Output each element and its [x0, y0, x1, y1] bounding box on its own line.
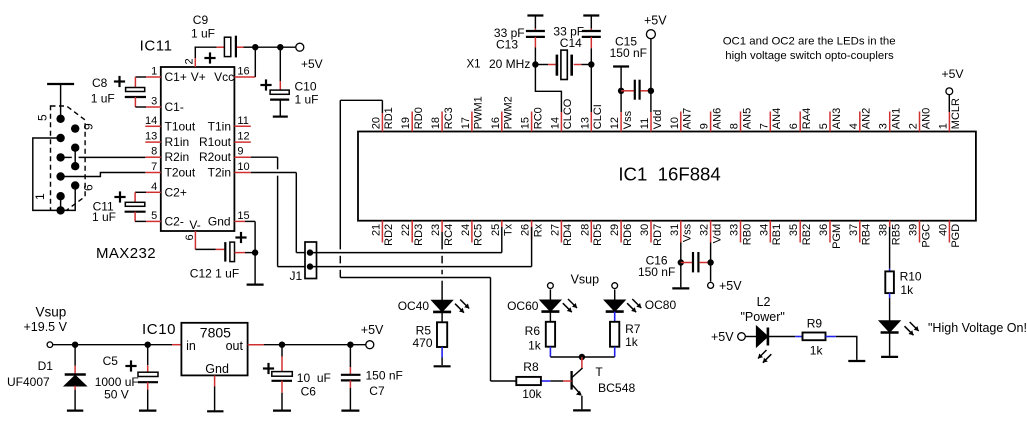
- svg-text:3: 3: [151, 96, 157, 108]
- svg-text:L2: L2: [757, 295, 771, 309]
- svg-text:1k: 1k: [810, 344, 824, 358]
- wire R5 to ground: [441, 347, 443, 358]
- wire Gnd pin15 down: [245, 220, 255, 222]
- wire crystal left to CLCO pin14: [535, 65, 561, 113]
- capacitor C9: [224, 37, 230, 56]
- svg-text:AN6: AN6: [711, 108, 723, 129]
- wire J1 to Rx pin26: [310, 266, 532, 268]
- IC1 pin 33 RB0: [740, 221, 742, 243]
- svg-text:9: 9: [237, 146, 243, 158]
- svg-text:RD3: RD3: [413, 224, 425, 246]
- svg-text:out: out: [226, 339, 244, 353]
- svg-text:30: 30: [639, 224, 651, 236]
- wire R2out pin9 to J1: [251, 156, 278, 158]
- svg-text:1k: 1k: [625, 335, 639, 349]
- svg-text:22: 22: [400, 224, 412, 236]
- svg-text:1 uF: 1 uF: [91, 92, 115, 106]
- wire junction to +5V terminal: [255, 46, 296, 48]
- wire 7805 out rail: [248, 344, 264, 346]
- DB9 pin dots left column: [56, 115, 64, 123]
- svg-text:T1out: T1out: [165, 119, 196, 133]
- svg-text:16: 16: [237, 66, 249, 78]
- svg-text:10 uF: 10 uF: [297, 371, 331, 385]
- MAX232 pin 6 V- stub: [194, 231, 196, 249]
- IC1 pin 34 RB1: [769, 221, 771, 243]
- svg-text:Gnd: Gnd: [208, 214, 231, 228]
- wire C8 to pin3: [134, 97, 136, 107]
- svg-text:RD5: RD5: [592, 224, 604, 246]
- svg-text:IC1 16F884: IC1 16F884: [618, 164, 720, 185]
- svg-text:R1out: R1out: [199, 135, 232, 149]
- ground MAX232: [247, 284, 264, 286]
- IC1 pin 5 AN3: [829, 112, 831, 132]
- wire Vdd pin32 down: [710, 243, 712, 282]
- svg-text:IC11: IC11: [140, 37, 173, 54]
- node D1 junction: [72, 342, 78, 348]
- wire DB9 link pins 8-7: [74, 148, 76, 167]
- wire C11 to pin5: [134, 212, 136, 222]
- svg-text:CLCO: CLCO: [562, 98, 574, 129]
- IC1 pin 6 RA4: [799, 112, 801, 132]
- svg-text:28: 28: [579, 224, 591, 236]
- capacitor C13: [527, 14, 543, 16]
- svg-text:AN1: AN1: [891, 108, 903, 129]
- IC1 pin 17 PWM1: [471, 112, 473, 132]
- svg-text:PGD: PGD: [950, 224, 962, 248]
- IC IC10 7805 body: [181, 323, 247, 376]
- svg-text:26: 26: [520, 224, 532, 236]
- IC IC1 16F884 body: [358, 132, 976, 221]
- ground emitter: [573, 409, 591, 411]
- svg-text:RD0: RD0: [413, 107, 425, 129]
- svg-text:150 nF: 150 nF: [638, 265, 675, 279]
- svg-text:14: 14: [145, 115, 157, 127]
- svg-text:150 nF: 150 nF: [610, 46, 647, 60]
- svg-text:1: 1: [33, 193, 47, 200]
- svg-text:OC60: OC60: [507, 299, 539, 313]
- svg-text:RB5: RB5: [891, 224, 903, 245]
- DB9 pin dots right column: [71, 124, 79, 132]
- IC1 pin 35 RB2: [799, 221, 801, 243]
- crystal X1: [535, 64, 548, 66]
- svg-text:RD2: RD2: [383, 224, 395, 246]
- terminal +5V (MAX232): [296, 43, 304, 51]
- wire R8 to base: [550, 380, 563, 382]
- svg-text:AN2: AN2: [861, 108, 873, 129]
- svg-text:D1: D1: [38, 359, 54, 373]
- svg-text:9: 9: [82, 123, 96, 130]
- svg-text:C5: C5: [103, 354, 119, 368]
- svg-text:Rx: Rx: [532, 223, 544, 237]
- svg-text:R8: R8: [523, 360, 539, 374]
- wire +5V to MCLR pin1: [948, 95, 950, 112]
- svg-text:RD1: RD1: [383, 107, 395, 129]
- LED L2 arrows: [758, 350, 767, 359]
- svg-text:C7: C7: [369, 384, 385, 398]
- svg-text:RB1: RB1: [771, 224, 783, 245]
- svg-text:RD4: RD4: [562, 224, 574, 246]
- capacitor C10: [279, 47, 281, 81]
- svg-text:Vsup: Vsup: [571, 273, 600, 287]
- wire pin1 to C8: [135, 76, 146, 78]
- MAX232 pin 7 stub: [145, 172, 161, 174]
- svg-text:C1-: C1-: [165, 100, 184, 114]
- wire junction down to Vcc pin16: [254, 47, 256, 77]
- wire Vsup rail: [53, 344, 172, 346]
- svg-text:36: 36: [818, 224, 830, 236]
- MAX232 pin 13 stub: [145, 141, 161, 143]
- svg-text:MCLR: MCLR: [950, 98, 962, 129]
- transistor T BC548: [581, 357, 583, 368]
- svg-text:RC5: RC5: [473, 224, 485, 246]
- svg-text:CLCI: CLCI: [592, 104, 604, 129]
- IC1 pin 14 CLCO: [560, 112, 562, 132]
- IC1 pin 10 AN7: [680, 112, 682, 132]
- MAX232 pin 10 stub: [234, 172, 250, 174]
- svg-text:3: 3: [878, 123, 890, 129]
- svg-text:34: 34: [758, 224, 770, 236]
- svg-text:AN7: AN7: [682, 108, 694, 129]
- ground C10: [273, 115, 288, 117]
- ground DB9 pin5: [60, 84, 62, 119]
- svg-text:RC0: RC0: [532, 107, 544, 129]
- svg-text:RA4: RA4: [801, 108, 813, 129]
- wire RC4 pin23 to OC40: [441, 232, 443, 249]
- resistor R8: [516, 377, 541, 385]
- svg-text:Vss: Vss: [622, 110, 634, 129]
- svg-text:J1: J1: [290, 269, 303, 283]
- svg-text:8: 8: [151, 146, 157, 158]
- IC1 pin 7 AN4: [769, 112, 771, 132]
- ground 7805: [207, 410, 223, 412]
- svg-text:25: 25: [490, 224, 502, 236]
- svg-text:11: 11: [639, 118, 651, 129]
- node C5 junction: [145, 342, 151, 348]
- resistor R7: [610, 322, 619, 347]
- svg-text:RD7: RD7: [652, 224, 664, 246]
- svg-text:12: 12: [609, 117, 621, 129]
- wire DB9 pins 4-6-1 tie: [33, 138, 75, 210]
- svg-text:IC10: IC10: [142, 321, 176, 338]
- MAX232 pin 12 stub: [234, 141, 250, 143]
- svg-text:23: 23: [430, 224, 442, 236]
- LED L2: [745, 336, 756, 338]
- MAX232 pin 15 stub: [234, 220, 245, 222]
- terminal +5V (L2): [738, 333, 746, 341]
- node C6 junction: [279, 342, 285, 348]
- svg-text:1k: 1k: [528, 339, 542, 353]
- svg-text:1k: 1k: [900, 283, 914, 297]
- node DB9 pin1 tie junction: [60, 196, 62, 210]
- IC1 pin 1 MCLR: [948, 112, 950, 132]
- MAX232 pin 4 stub: [146, 191, 161, 193]
- svg-text:38: 38: [878, 224, 890, 236]
- wire base red: [563, 380, 572, 382]
- svg-text:T: T: [595, 365, 603, 379]
- svg-text:32: 32: [699, 224, 711, 236]
- svg-text:C1+: C1+: [165, 70, 187, 84]
- IC1 pin 20 RD1: [381, 113, 383, 132]
- MAX232 pin 5 stub: [146, 220, 161, 222]
- svg-text:13: 13: [145, 131, 157, 143]
- capacitor C5: [147, 345, 149, 366]
- terminal +5V (Vdd top): [646, 30, 655, 39]
- IC1 pin 32 Vdd: [710, 221, 712, 243]
- LED OC80: [614, 289, 616, 300]
- svg-text:RC4: RC4: [443, 224, 455, 246]
- svg-text:21: 21: [370, 224, 382, 236]
- svg-text:T1in: T1in: [208, 119, 231, 133]
- capacitor C12: [224, 242, 226, 262]
- IC1 pin 36 PGM: [829, 221, 831, 243]
- svg-text:1 uF: 1 uF: [295, 93, 319, 107]
- MAX232 pin 2 V+ stub: [194, 58, 196, 67]
- svg-text:13: 13: [579, 117, 591, 129]
- ground Vss pin12: [613, 65, 629, 67]
- LED High Voltage On: [880, 321, 900, 332]
- MAX232 pin 16 stub: [234, 76, 255, 78]
- wire R7 to collector node: [614, 347, 616, 357]
- J1 pin dots: [307, 249, 313, 255]
- svg-text:6: 6: [82, 184, 96, 191]
- svg-text:6: 6: [184, 234, 196, 240]
- IC1 pin 18 RC3: [441, 112, 443, 132]
- svg-text:10: 10: [237, 161, 249, 173]
- IC1 pin 31 Vss: [680, 221, 682, 243]
- wire DB9 pin2 TxD to T2out: [61, 173, 146, 177]
- LED OC40: [432, 301, 452, 312]
- IC1 pin 21 RD2: [381, 221, 383, 243]
- node C9-Vcc junction: [252, 44, 258, 50]
- svg-text:33: 33: [729, 224, 741, 236]
- svg-text:high voltage switch opto-coupl: high voltage switch opto-couplers: [725, 50, 894, 62]
- LED OC40 arrows: [455, 304, 464, 313]
- svg-text:4: 4: [848, 123, 860, 129]
- svg-text:C2-: C2-: [165, 214, 184, 228]
- svg-text:AN4: AN4: [771, 108, 783, 129]
- IC1 pin 22 RD3: [411, 221, 413, 243]
- svg-text:37: 37: [848, 224, 860, 236]
- LED HV arrows: [905, 326, 914, 335]
- capacitor C14: [583, 14, 599, 16]
- svg-text:15: 15: [237, 210, 249, 222]
- IC1 pin 2 AN0: [919, 112, 921, 132]
- IC1 pin 37 RB4: [859, 221, 861, 243]
- svg-text:Vdd: Vdd: [652, 110, 664, 130]
- capacitor C15: [621, 90, 634, 92]
- svg-text:1 uF: 1 uF: [92, 210, 116, 224]
- svg-text:PWM1: PWM1: [473, 96, 485, 129]
- svg-text:C9: C9: [193, 13, 209, 27]
- svg-text:Vdd: Vdd: [711, 224, 723, 244]
- node C10 junction: [277, 44, 283, 50]
- resistor R9: [803, 333, 826, 341]
- svg-text:R6: R6: [525, 324, 541, 338]
- svg-text:+19.5 V: +19.5 V: [24, 320, 68, 334]
- IC1 pin 13 CLCI: [590, 112, 592, 132]
- IC1 pin 24 RC5: [471, 221, 473, 243]
- svg-text:Tx: Tx: [503, 223, 515, 236]
- IC1 pin 11 Vdd: [650, 112, 652, 132]
- svg-text:14: 14: [549, 117, 561, 129]
- svg-text:C6: C6: [301, 385, 317, 399]
- svg-text:OC40: OC40: [398, 299, 430, 313]
- svg-text:1: 1: [151, 66, 157, 78]
- IC1 pin 38 RB5: [889, 221, 891, 228]
- svg-text:Gnd: Gnd: [205, 362, 229, 376]
- IC1 pin 9 AN6: [710, 112, 712, 132]
- IC1 pin 4 AN2: [859, 112, 861, 132]
- capacitor C8: [126, 88, 145, 92]
- svg-text:20 MHz: 20 MHz: [489, 57, 530, 71]
- MAX232 pin 1 stub: [146, 76, 161, 78]
- svg-text:27: 27: [549, 224, 561, 236]
- wire 7805 Gnd to ground: [214, 375, 216, 386]
- svg-text:R2in: R2in: [165, 150, 190, 164]
- svg-text:Vsup: Vsup: [36, 305, 67, 320]
- connector J1: [305, 242, 317, 279]
- svg-text:PGC: PGC: [920, 224, 932, 248]
- svg-text:31: 31: [669, 224, 681, 236]
- svg-text:35: 35: [788, 224, 800, 236]
- capacitor C16: [681, 262, 692, 264]
- ground Vss pin31: [672, 287, 689, 289]
- svg-text:7: 7: [758, 123, 770, 129]
- MAX232 pin 3 stub: [146, 106, 161, 108]
- MAX232 pin 8 stub: [145, 156, 161, 158]
- svg-text:"Power": "Power": [741, 310, 785, 324]
- svg-text:X1: X1: [467, 59, 481, 71]
- resistor R5: [437, 322, 447, 347]
- svg-text:+5V: +5V: [942, 67, 965, 81]
- svg-text:"High Voltage On!": "High Voltage On!": [928, 321, 1027, 335]
- wire Vss pin31 down: [680, 243, 682, 288]
- svg-text:470: 470: [412, 336, 432, 350]
- svg-text:8: 8: [729, 123, 741, 129]
- MAX232 pin 9 stub: [234, 156, 250, 158]
- LED OC60: [549, 289, 551, 300]
- wire crystal right to CLCI pin13: [590, 48, 592, 112]
- svg-text:18: 18: [430, 117, 442, 129]
- svg-text:5: 5: [151, 210, 157, 222]
- node Vss-C16: [678, 259, 684, 265]
- wire R6 to collector node: [549, 347, 551, 357]
- svg-text:R9: R9: [807, 317, 823, 331]
- svg-text:RD6: RD6: [622, 224, 634, 246]
- wire RB5 pin38 to R10: [889, 227, 891, 269]
- svg-text:+5V: +5V: [361, 323, 384, 337]
- svg-text:9: 9: [699, 123, 711, 129]
- svg-text:V-: V-: [189, 218, 200, 232]
- node Vdd-C15: [648, 88, 654, 94]
- wire L2 to R9: [768, 336, 795, 338]
- svg-text:C10: C10: [295, 80, 317, 94]
- connector DB9 outline: [51, 106, 86, 210]
- svg-text:C14: C14: [560, 36, 582, 50]
- svg-text:PGM: PGM: [831, 224, 843, 249]
- terminal +5V (MCLR): [946, 88, 953, 95]
- node Vdd-C16: [707, 259, 713, 265]
- svg-text:1: 1: [937, 123, 949, 129]
- svg-text:C13: C13: [496, 37, 518, 51]
- ground C7: [341, 410, 359, 412]
- node C7 junction: [347, 342, 353, 348]
- IC IC11 MAX232 body: [161, 67, 235, 231]
- svg-text:RB4: RB4: [861, 224, 873, 245]
- svg-text:T2out: T2out: [165, 166, 196, 180]
- IC1 pin 26 Rx: [531, 221, 533, 240]
- svg-text:C12 1 uF: C12 1 uF: [190, 267, 239, 281]
- IC1 pin 27 RD4: [560, 221, 562, 243]
- svg-text:7: 7: [151, 161, 157, 173]
- svg-text:T2in: T2in: [208, 166, 231, 180]
- svg-text:R1in: R1in: [165, 135, 190, 149]
- ground C6: [273, 410, 291, 412]
- ground C5: [139, 410, 156, 412]
- svg-text:UF4007: UF4007: [7, 375, 50, 389]
- svg-text:17: 17: [460, 117, 472, 129]
- svg-text:C2+: C2+: [165, 185, 187, 199]
- svg-text:5: 5: [36, 114, 50, 121]
- IC1 pin 30 RD7: [650, 221, 652, 243]
- svg-text:10: 10: [669, 117, 681, 129]
- wire R9 to ground: [826, 336, 836, 338]
- svg-text:6: 6: [788, 123, 800, 129]
- node Vss-C15: [618, 88, 624, 94]
- svg-text:16: 16: [490, 117, 502, 129]
- node crystal left: [532, 61, 538, 67]
- svg-text:AN3: AN3: [831, 108, 843, 129]
- terminal Vsup OC80: [612, 283, 618, 289]
- IC1 pin 39 PGC: [919, 221, 921, 243]
- svg-text:AN0: AN0: [920, 108, 932, 129]
- svg-text:19: 19: [400, 117, 412, 129]
- terminal +5V (regulator out): [366, 341, 374, 349]
- svg-text:+5V: +5V: [719, 279, 742, 293]
- svg-text:29: 29: [609, 224, 621, 236]
- svg-text:40: 40: [937, 224, 949, 236]
- IC1 pin 29 RD6: [620, 221, 622, 243]
- svg-text:OC1 and OC2 are the LEDs in th: OC1 and OC2 are the LEDs in the: [723, 36, 896, 48]
- svg-text:in: in: [186, 339, 196, 353]
- MAX232 pin 11 stub: [234, 125, 250, 127]
- capacitor C7: [349, 345, 351, 367]
- IC1 pin 23 RC4: [441, 221, 443, 233]
- svg-text:RB0: RB0: [741, 224, 753, 245]
- svg-text:OC80: OC80: [645, 298, 677, 312]
- node Gnd junction: [252, 249, 258, 255]
- svg-text:AN5: AN5: [741, 108, 753, 129]
- wire T2in pin10 to J1: [251, 172, 296, 174]
- ground R5: [434, 365, 451, 367]
- IC1 pin 12 Vss: [620, 112, 622, 132]
- svg-text:+5V: +5V: [301, 57, 323, 71]
- terminal +5V (Vdd bottom): [708, 282, 714, 288]
- svg-text:39: 39: [908, 224, 920, 236]
- svg-text:1 uF: 1 uF: [191, 26, 215, 40]
- svg-text:12: 12: [237, 131, 249, 143]
- terminal Vsup OC60: [548, 283, 554, 289]
- svg-text:15: 15: [520, 117, 532, 129]
- svg-text:PWM2: PWM2: [503, 96, 515, 129]
- wire V- to C12: [195, 248, 215, 250]
- svg-text:RB2: RB2: [801, 224, 813, 245]
- svg-text:24: 24: [460, 224, 472, 236]
- svg-text:+5V: +5V: [644, 14, 667, 28]
- node collector junction: [579, 354, 585, 360]
- node crystal right: [588, 61, 594, 67]
- wire DB9 pin3 RxD to R2in: [61, 156, 72, 158]
